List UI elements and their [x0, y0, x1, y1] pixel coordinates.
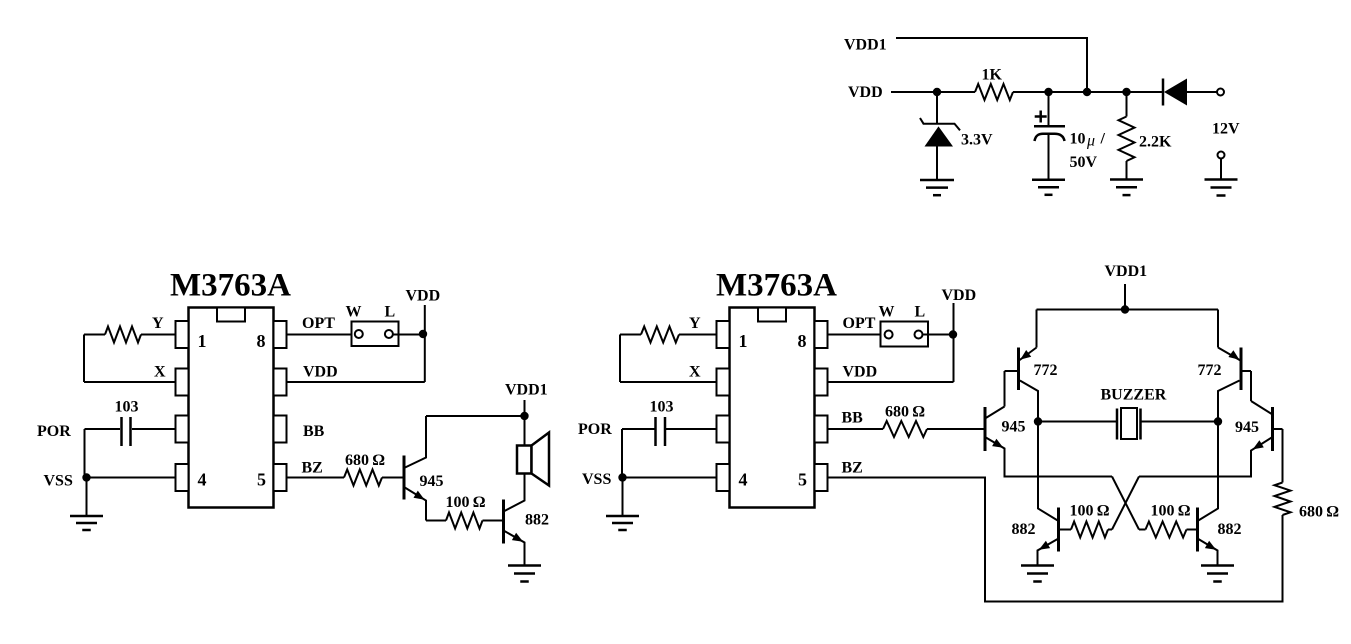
svg-text:Y: Y: [689, 315, 701, 332]
svg-text:OPT: OPT: [843, 315, 876, 332]
svg-text:680 Ω: 680 Ω: [1299, 504, 1339, 521]
svg-text:BUZZER: BUZZER: [1101, 387, 1167, 404]
svg-text:POR: POR: [37, 423, 71, 440]
svg-text:100 Ω: 100 Ω: [446, 494, 486, 511]
svg-text:/: /: [1100, 131, 1106, 148]
svg-text:VDD1: VDD1: [1105, 263, 1148, 280]
svg-text:VDD: VDD: [843, 364, 878, 381]
svg-text:POR: POR: [578, 421, 612, 438]
svg-text:10: 10: [1070, 131, 1086, 148]
svg-text:5: 5: [257, 470, 266, 490]
svg-text:VSS: VSS: [582, 471, 611, 488]
svg-text:2.2K: 2.2K: [1139, 134, 1172, 151]
svg-text:VSS: VSS: [44, 473, 73, 490]
svg-text:L: L: [915, 304, 926, 321]
svg-text:680 Ω: 680 Ω: [885, 404, 925, 421]
svg-text:680 Ω: 680 Ω: [345, 452, 385, 469]
svg-text:945: 945: [1235, 419, 1259, 436]
svg-text:3.3V: 3.3V: [961, 132, 993, 149]
svg-text:OPT: OPT: [302, 315, 335, 332]
svg-text:100 Ω: 100 Ω: [1151, 503, 1191, 520]
svg-text:X: X: [689, 364, 701, 381]
svg-text:VDD: VDD: [303, 364, 338, 381]
svg-text:BB: BB: [303, 423, 325, 440]
svg-text:M3763A: M3763A: [716, 268, 837, 304]
svg-text:1: 1: [739, 331, 748, 351]
svg-text:1K: 1K: [982, 67, 1003, 84]
svg-text:50V: 50V: [1070, 154, 1098, 171]
svg-text:772: 772: [1034, 362, 1058, 379]
svg-text:4: 4: [739, 470, 748, 490]
svg-text:8: 8: [798, 331, 807, 351]
svg-text:Y: Y: [152, 315, 164, 332]
svg-text:882: 882: [1012, 521, 1036, 538]
svg-text:VDD1: VDD1: [505, 382, 548, 399]
svg-text:882: 882: [525, 512, 549, 529]
svg-text:BZ: BZ: [842, 460, 863, 477]
svg-text:100 Ω: 100 Ω: [1070, 503, 1110, 520]
svg-text:5: 5: [798, 470, 807, 490]
svg-text:W: W: [879, 304, 895, 321]
svg-text:1: 1: [198, 331, 207, 351]
svg-text:4: 4: [198, 470, 207, 490]
svg-text:VDD: VDD: [848, 84, 883, 101]
svg-text:M3763A: M3763A: [170, 268, 291, 304]
svg-text:L: L: [385, 304, 396, 321]
svg-text:945: 945: [1002, 419, 1026, 436]
svg-text:103: 103: [115, 399, 139, 416]
svg-text:945: 945: [420, 473, 444, 490]
svg-text:BB: BB: [842, 410, 864, 427]
svg-text:BZ: BZ: [302, 460, 323, 477]
svg-text:103: 103: [650, 399, 674, 416]
svg-text:882: 882: [1218, 521, 1242, 538]
svg-text:VDD: VDD: [406, 288, 441, 305]
svg-text:X: X: [154, 364, 166, 381]
svg-text:772: 772: [1198, 362, 1222, 379]
svg-text:VDD: VDD: [942, 287, 977, 304]
svg-text:W: W: [346, 304, 362, 321]
svg-text:12V: 12V: [1212, 121, 1240, 138]
svg-text:μ: μ: [1086, 133, 1095, 150]
svg-text:VDD1: VDD1: [844, 37, 887, 54]
svg-text:8: 8: [257, 331, 266, 351]
